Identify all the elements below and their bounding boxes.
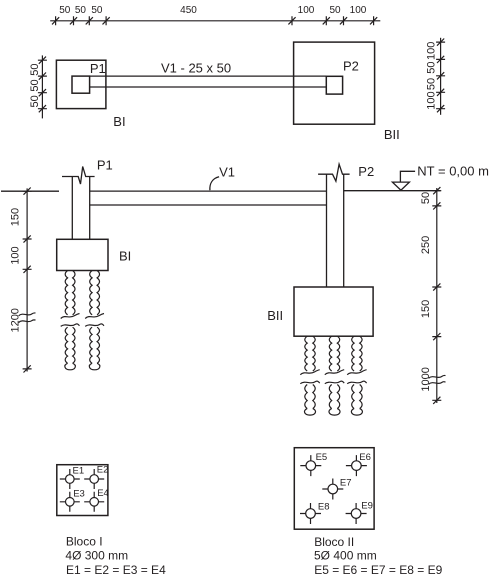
svg-text:150: 150: [420, 300, 432, 318]
pile 2 under BI: [90, 271, 92, 315]
tick at y=92.7: [38, 89, 47, 96]
svg-text:E8: E8: [318, 501, 330, 512]
dimension line right vertical (elevation): [436, 188, 438, 403]
tick at x=73.5: [70, 16, 77, 25]
pile 1 under BII: [305, 336, 307, 371]
svg-text:BI: BI: [119, 249, 131, 264]
break mark on left dim line: [19, 313, 36, 323]
pile 3 under BII: [352, 336, 354, 371]
break mark on right dim line: [429, 375, 446, 384]
svg-text:E1: E1: [73, 465, 85, 476]
tick at x=55.6: [52, 16, 59, 25]
NT level triangle: [392, 182, 409, 190]
pile E2: [90, 475, 99, 484]
tick at y=368.9: [23, 365, 32, 372]
svg-text:E6: E6: [359, 452, 371, 463]
beam V1 inside BII plan: [294, 76, 327, 87]
tick at y=205.9: [432, 202, 441, 209]
tick at x=343.5: [340, 16, 347, 25]
svg-text:4Ø 300 mm: 4Ø 300 mm: [65, 549, 128, 563]
tick at y=75.8: [436, 72, 445, 79]
tick at y=108.7: [38, 105, 47, 112]
svg-text:1000: 1000: [420, 367, 432, 391]
pile E7: [328, 484, 338, 494]
svg-text:50: 50: [91, 5, 103, 16]
tick at y=190.7: [432, 187, 441, 194]
svg-text:P1: P1: [90, 61, 106, 76]
svg-text:E7: E7: [340, 478, 352, 489]
tick at x=326.3: [323, 16, 330, 25]
svg-text:100: 100: [350, 5, 367, 16]
svg-text:E3: E3: [73, 488, 85, 499]
svg-text:Bloco I: Bloco I: [66, 534, 103, 548]
beam V1 plan outline: [90, 76, 327, 87]
svg-text:50: 50: [426, 61, 438, 73]
NT level symbol leader: [400, 171, 415, 182]
ground line left segment: [1, 190, 59, 192]
svg-text:BI: BI: [113, 114, 125, 129]
tick at x=106.1: [103, 16, 110, 25]
tick at y=336.6: [432, 333, 441, 340]
svg-text:E2: E2: [97, 464, 109, 475]
tick at y=191.1: [23, 188, 32, 195]
tick at y=59.4: [436, 56, 445, 63]
tick at x=373.6: [370, 16, 377, 25]
pile E8: [306, 509, 316, 519]
svg-text:E5 = E6 = E7 = E8 = E9: E5 = E6 = E7 = E8 = E9: [314, 563, 442, 577]
column P2 elevation sides: [327, 174, 344, 287]
svg-text:250: 250: [420, 236, 432, 254]
svg-text:V1 - 25 x 50: V1 - 25 x 50: [161, 61, 231, 76]
svg-text:50: 50: [426, 78, 438, 90]
pile 1 under BI: [65, 271, 67, 315]
beam V1 elevation: [90, 191, 327, 205]
svg-text:P2: P2: [358, 164, 374, 179]
pile E9: [351, 509, 361, 519]
block BII plan outline: [294, 42, 375, 124]
tick at y=42.1: [436, 39, 445, 46]
block BII elevation: [294, 287, 373, 336]
svg-text:50: 50: [29, 95, 41, 107]
svg-text:50: 50: [29, 79, 41, 91]
pile E5: [306, 461, 316, 471]
column P2 plan: [326, 76, 342, 94]
svg-text:P2: P2: [343, 59, 359, 74]
pile E6: [352, 461, 362, 471]
ground line right segment: [344, 190, 441, 192]
svg-text:E5: E5: [316, 452, 328, 463]
tick at y=239.0: [23, 235, 32, 242]
column P2 top cap with break: [318, 164, 350, 181]
svg-text:Bloco II: Bloco II: [314, 535, 354, 549]
svg-text:50: 50: [29, 63, 41, 75]
tick at y=287.0: [432, 283, 441, 290]
block BI plan outline: [56, 60, 106, 108]
svg-text:E1 = E2 = E3 = E4: E1 = E2 = E3 = E4: [66, 563, 166, 577]
pile E3: [66, 498, 75, 507]
svg-text:50: 50: [420, 192, 432, 204]
tick at y=92.3: [436, 89, 445, 96]
pile E4: [90, 498, 99, 507]
svg-text:150: 150: [10, 208, 22, 226]
tick at y=76.1: [38, 73, 47, 80]
svg-text:1200: 1200: [10, 308, 22, 332]
dimension line right vertical (plan): [440, 38, 442, 115]
column P1 elevation sides: [72, 177, 89, 240]
tick at y=108.7: [436, 105, 445, 112]
svg-text:450: 450: [180, 5, 197, 16]
svg-text:100: 100: [426, 91, 438, 109]
svg-text:BII: BII: [267, 308, 283, 323]
dimension line left vertical (plan): [41, 55, 43, 118]
svg-text:50: 50: [329, 5, 341, 16]
svg-text:50: 50: [59, 5, 71, 16]
dimension line left vertical (elevation): [26, 188, 28, 371]
svg-text:P1: P1: [97, 157, 113, 172]
svg-text:E4: E4: [97, 488, 109, 499]
block BI elevation: [57, 239, 108, 270]
tick at y=60.2: [38, 57, 47, 64]
svg-text:50: 50: [75, 5, 87, 16]
column P1 top cap with break: [62, 167, 95, 185]
tick at y=400.3: [432, 397, 441, 404]
Bloco I detail outline: [57, 465, 108, 516]
pile E1: [66, 475, 75, 484]
pile 2 under BII: [329, 336, 331, 371]
svg-text:100: 100: [10, 246, 22, 264]
svg-text:BII: BII: [384, 127, 400, 142]
dimension line top horizontal: [50, 20, 380, 22]
column P1 plan: [72, 76, 90, 93]
svg-text:E9: E9: [361, 500, 373, 511]
tick at x=292.0: [288, 16, 295, 25]
svg-text:V1: V1: [219, 164, 235, 179]
svg-text:NT = 0,00 m: NT = 0,00 m: [417, 163, 489, 178]
leader arc to V1 label: [210, 177, 219, 190]
Bloco II detail outline: [294, 448, 374, 530]
svg-text:5Ø 400 mm: 5Ø 400 mm: [314, 549, 377, 563]
svg-text:100: 100: [298, 5, 315, 16]
tick at x=89.3: [86, 16, 93, 25]
tick at y=269.3: [23, 266, 32, 273]
svg-text:100: 100: [426, 42, 438, 60]
